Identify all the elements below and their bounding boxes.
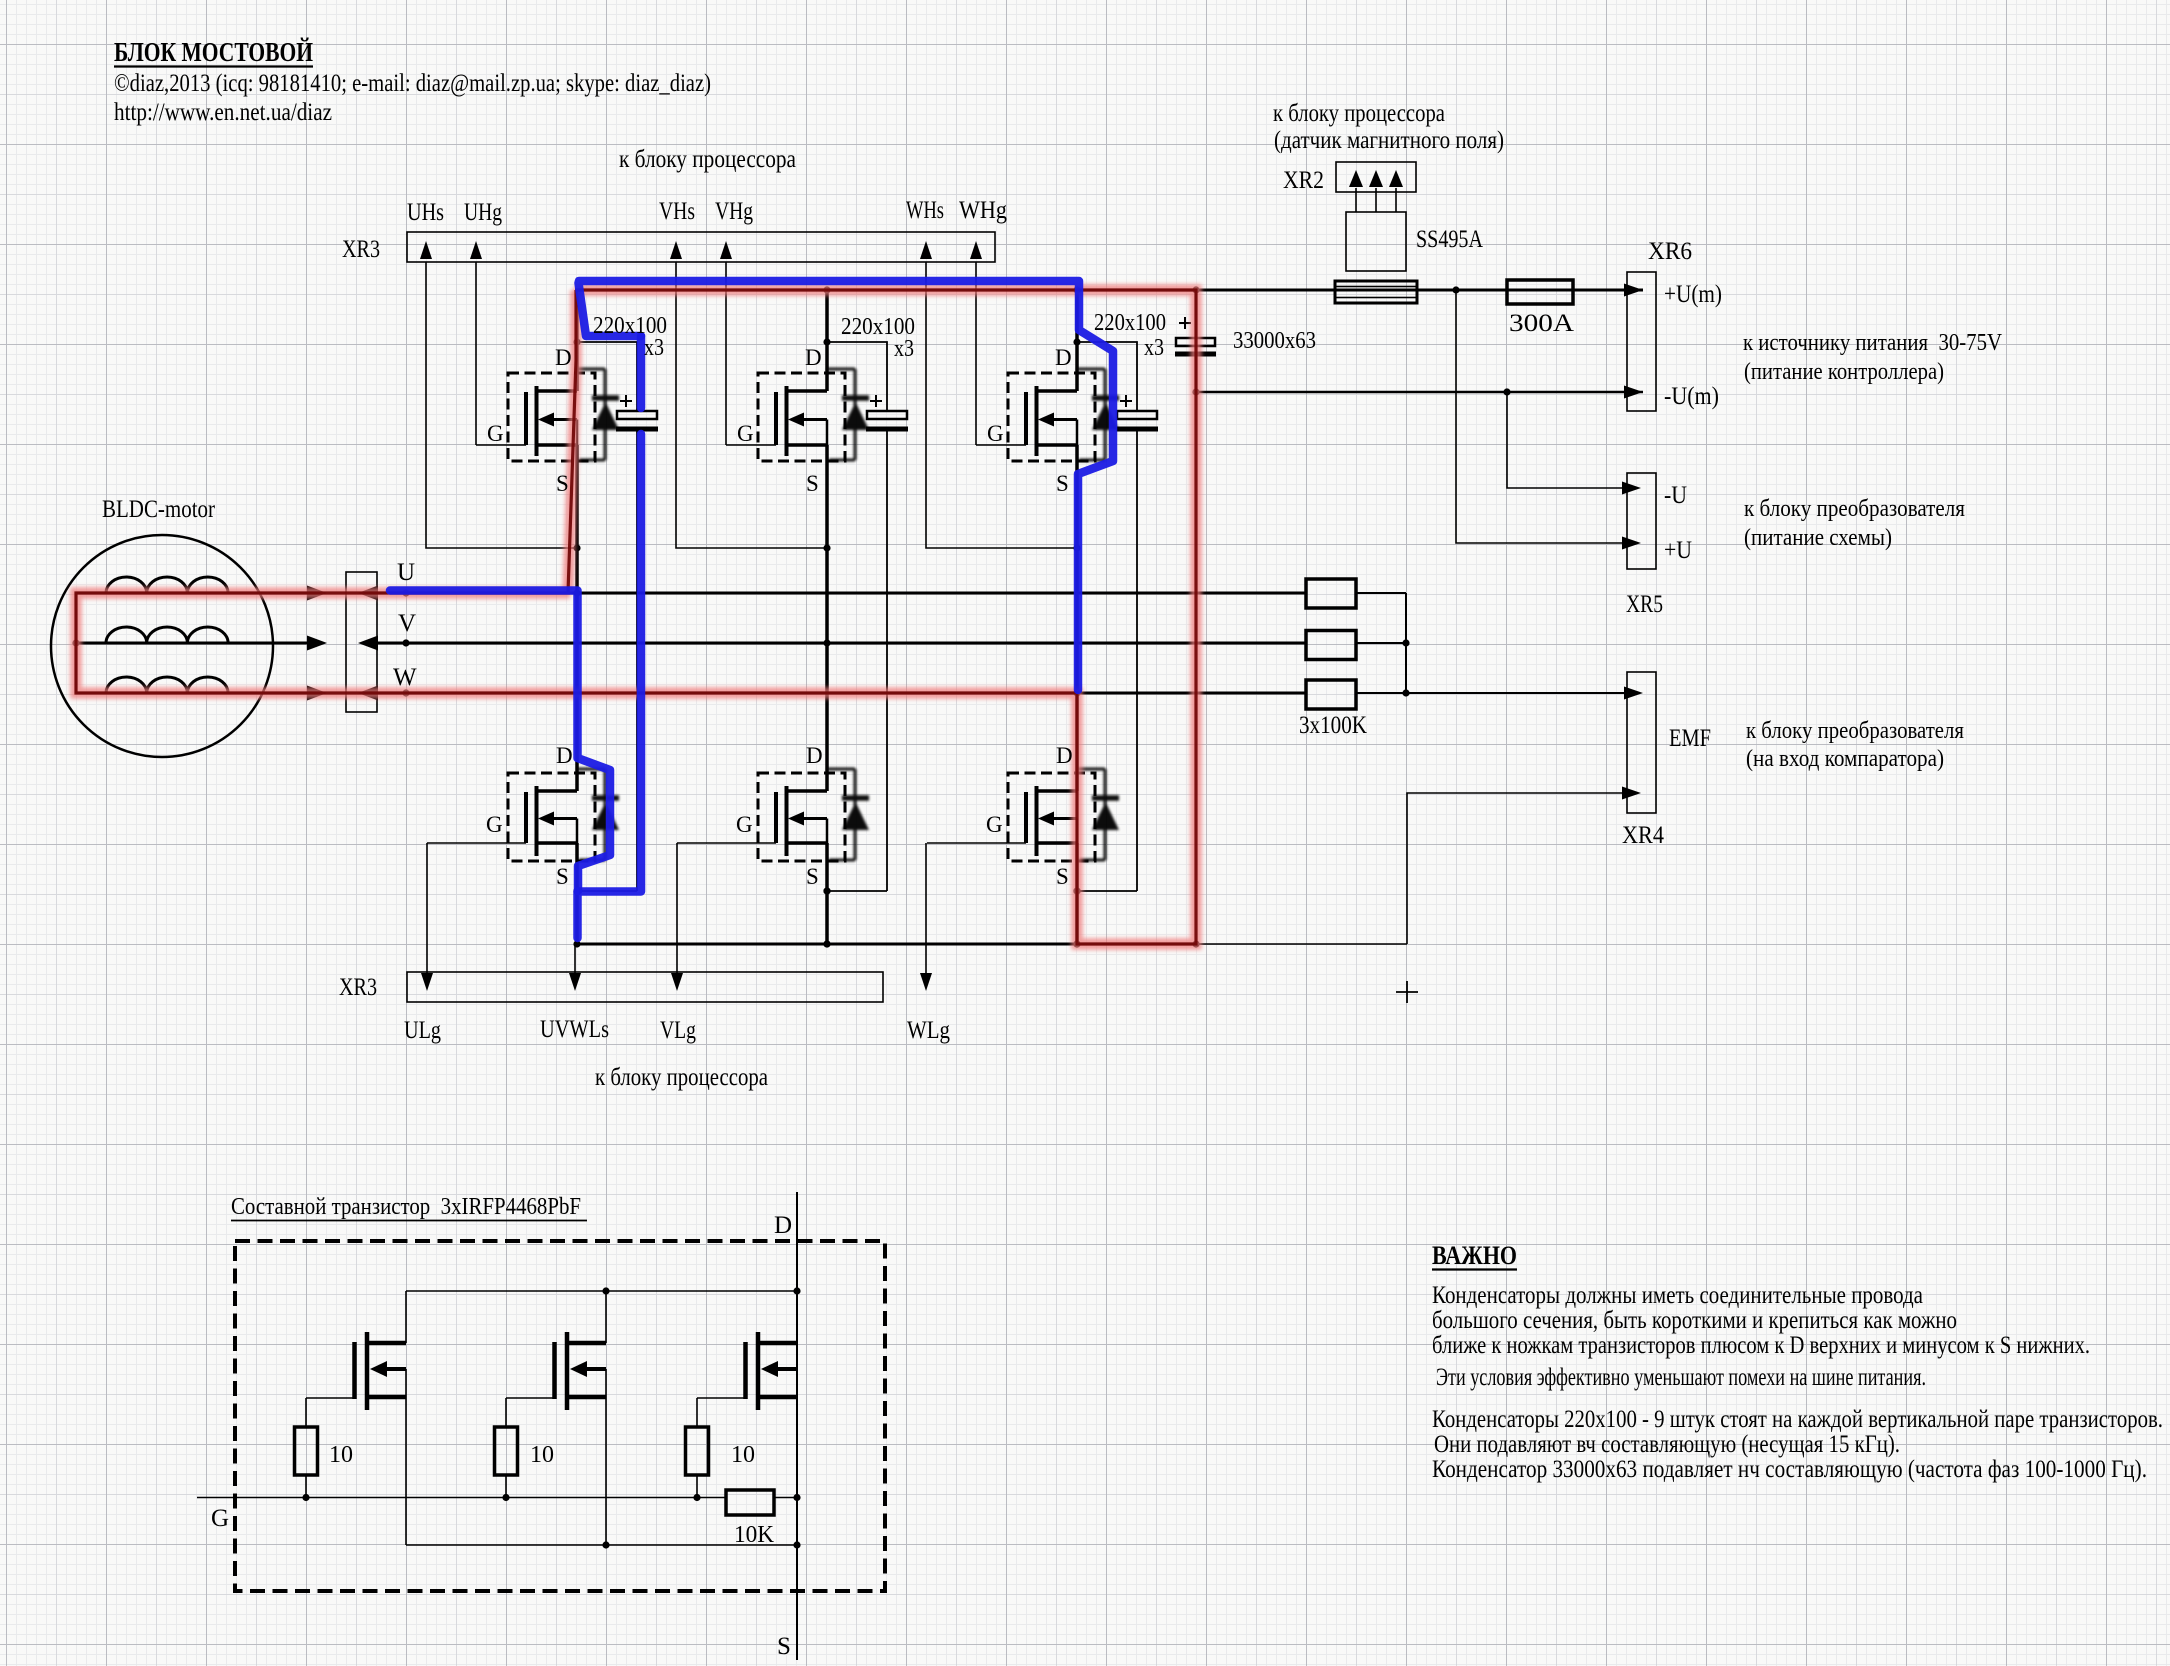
svg-text:-U: -U [1664, 482, 1687, 509]
svg-text:W: W [393, 664, 417, 691]
svg-text:XR4: XR4 [1622, 822, 1664, 849]
svg-text:http://www.en.net.ua/diaz: http://www.en.net.ua/diaz [114, 99, 332, 126]
svg-text:VHs: VHs [659, 198, 695, 225]
svg-text:WHs: WHs [906, 197, 944, 224]
svg-text:к блоку процессора: к блоку процессора [1273, 100, 1445, 127]
svg-text:U: U [397, 559, 415, 586]
svg-text:большого сечения, быть коротки: большого сечения, быть короткими и крепи… [1432, 1307, 1957, 1334]
svg-text:300A: 300A [1509, 310, 1574, 337]
svg-text:S: S [806, 864, 819, 889]
svg-text:(на вход компаратора): (на вход компаратора) [1746, 746, 1944, 772]
svg-text:10: 10 [731, 1442, 755, 1468]
svg-text:10: 10 [329, 1442, 353, 1468]
svg-text:к источнику питания 30-75V: к источнику питания 30-75V [1743, 330, 2003, 356]
svg-text:S: S [777, 1633, 791, 1660]
svg-text:UHs: UHs [407, 199, 444, 226]
svg-text:UVWLs: UVWLs [540, 1016, 609, 1043]
svg-text:(питание схемы): (питание схемы) [1744, 525, 1892, 551]
svg-text:©diaz,2013 (icq: 98181410; e-m: ©diaz,2013 (icq: 98181410; e-mail: diaz@… [114, 70, 711, 97]
svg-text:ULg: ULg [404, 1017, 441, 1044]
svg-text:Конденсаторы 220x100 - 9 штук: Конденсаторы 220x100 - 9 штук стоят на к… [1432, 1406, 2163, 1433]
svg-text:БЛОК МОСТОВОЙ: БЛОК МОСТОВОЙ [114, 37, 313, 67]
svg-text:ВАЖНО: ВАЖНО [1432, 1241, 1517, 1270]
svg-text:33000x63: 33000x63 [1233, 328, 1316, 354]
svg-text:+U(m): +U(m) [1664, 281, 1722, 308]
svg-text:220x100: 220x100 [1094, 310, 1166, 336]
svg-text:Конденсатор 33000x63 подавляет: Конденсатор 33000x63 подавляет нч состав… [1432, 1456, 2147, 1483]
svg-text:x3: x3 [644, 335, 664, 361]
svg-text:ближе к ножкам транзисторов пл: ближе к ножкам транзисторов плюсом к D в… [1432, 1332, 2090, 1359]
svg-text:Составной транзистор 3xIRFP44: Составной транзистор 3xIRFP4468PbF [231, 1194, 581, 1220]
svg-text:XR3: XR3 [339, 974, 377, 1001]
svg-text:WHg: WHg [959, 197, 1007, 224]
svg-text:10K: 10K [734, 1522, 775, 1548]
svg-text:G: G [737, 421, 754, 446]
svg-text:XR6: XR6 [1648, 238, 1692, 265]
svg-text:S: S [1056, 864, 1069, 889]
svg-text:UHg: UHg [464, 199, 502, 226]
svg-text:SS495A: SS495A [1416, 226, 1483, 253]
svg-text:G: G [487, 421, 504, 446]
svg-text:G: G [987, 421, 1004, 446]
svg-text:(датчик магнитного поля): (датчик магнитного поля) [1274, 127, 1504, 154]
svg-text:+U: +U [1664, 537, 1692, 564]
svg-text:XR2: XR2 [1283, 167, 1324, 194]
svg-text:D: D [774, 1212, 792, 1239]
svg-text:D: D [555, 345, 572, 370]
svg-text:VHg: VHg [715, 198, 753, 225]
svg-text:S: S [1056, 471, 1069, 496]
svg-text:к блоку преобразователя: к блоку преобразователя [1744, 496, 1965, 522]
svg-text:Они подавляют вч составляющую: Они подавляют вч составляющую (несущая 1… [1434, 1431, 1900, 1458]
svg-text:(питание контроллера): (питание контроллера) [1744, 359, 1944, 385]
svg-text:D: D [806, 743, 823, 768]
svg-text:x3: x3 [894, 336, 914, 362]
svg-text:WLg: WLg [907, 1017, 950, 1044]
svg-text:G: G [211, 1505, 229, 1532]
svg-text:-U(m): -U(m) [1664, 383, 1719, 410]
svg-text:XR3: XR3 [342, 236, 380, 263]
svg-text:Конденсаторы должны иметь соед: Конденсаторы должны иметь соединительные… [1432, 1282, 1923, 1309]
svg-text:D: D [556, 743, 573, 768]
svg-text:D: D [805, 345, 822, 370]
svg-text:XR5: XR5 [1626, 591, 1663, 618]
svg-text:x3: x3 [1144, 335, 1164, 361]
svg-text:BLDC-motor: BLDC-motor [102, 496, 216, 523]
svg-text:D: D [1056, 743, 1073, 768]
svg-text:G: G [736, 812, 753, 837]
svg-text:V: V [398, 610, 416, 637]
svg-text:EMF: EMF [1669, 725, 1711, 752]
svg-text:к блоку процессора: к блоку процессора [619, 146, 796, 173]
svg-text:G: G [486, 812, 503, 837]
svg-text:D: D [1055, 345, 1072, 370]
svg-text:VLg: VLg [660, 1017, 696, 1044]
svg-text:S: S [556, 864, 569, 889]
svg-text:10: 10 [530, 1442, 554, 1468]
svg-text:Эти условия эффективно уменьша: Эти условия эффективно уменьшают помехи … [1436, 1364, 1926, 1391]
svg-text:к блоку процессора: к блоку процессора [595, 1064, 768, 1091]
svg-text:S: S [556, 471, 569, 496]
svg-text:S: S [806, 471, 819, 496]
svg-text:к блоку преобразователя: к блоку преобразователя [1746, 718, 1964, 744]
svg-text:G: G [986, 812, 1003, 837]
svg-text:3x100K: 3x100K [1299, 712, 1367, 739]
